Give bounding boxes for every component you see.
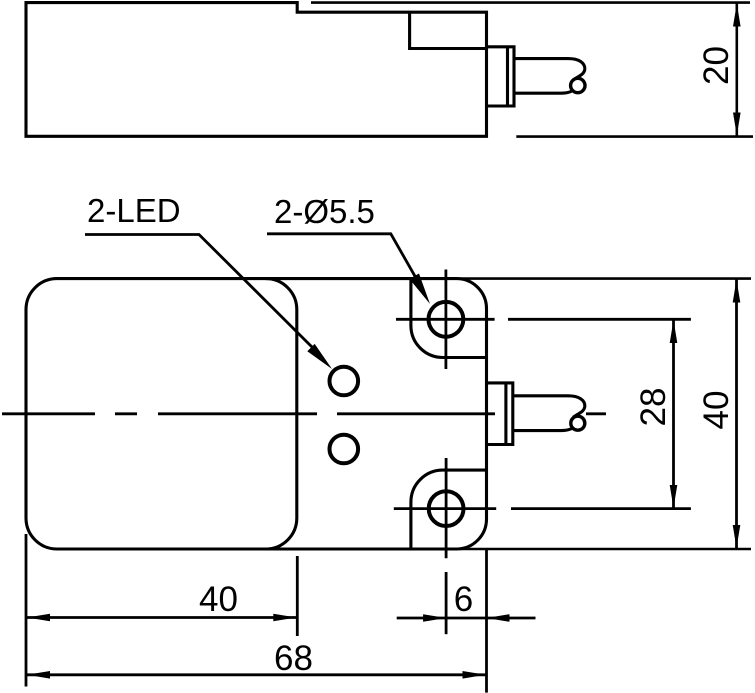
connector housing block (side view) <box>410 12 487 48</box>
dimension line 20 <box>735 4 738 136</box>
sensor outline (front view): body with rounded corners <box>26 279 487 549</box>
extension line bottom-right of front view (40 dim right) <box>735 280 738 549</box>
extension: top edge to right (40 dim) drawn with outline; bottom edge ext <box>460 277 751 280</box>
dimension line 28 <box>672 320 675 508</box>
LED window bottom <box>330 435 359 464</box>
sensor body outline (top/side view) <box>26 3 487 137</box>
svg-text:2-LED: 2-LED <box>87 192 181 229</box>
crosshair top hole <box>396 318 495 321</box>
arrowheads dim 20 <box>733 4 741 136</box>
leader line 2-dia5.5 <box>267 234 416 278</box>
arrowheads dim 28 <box>670 280 741 549</box>
svg-text:2-Ø5.5: 2-Ø5.5 <box>274 193 375 230</box>
dimension line 68 <box>27 673 486 676</box>
mounting hole top (2-dia5.5) <box>429 302 464 337</box>
bottom mounting ear outline <box>411 470 487 549</box>
cable with break symbol (side view) <box>514 59 585 81</box>
leader arrowhead 2-LED <box>307 344 332 369</box>
dimension line 40 (bottom) <box>27 616 296 619</box>
extension line head right (40 dim) <box>296 556 299 636</box>
leader arrowhead 2-dia5.5 <box>409 274 430 305</box>
leader line 2-LED <box>85 235 315 351</box>
dimension line 6 <box>397 617 536 620</box>
extension line left (40/68 dims) <box>25 534 28 687</box>
centerline horizontal main axis <box>2 412 606 415</box>
connector flange ring line (front view) <box>504 383 507 445</box>
cable with break symbol (front view) <box>513 396 585 418</box>
connector flange (front view) <box>487 383 513 445</box>
LED window top <box>330 367 359 396</box>
extension line top (side view, 20 dim) <box>311 1 750 4</box>
mounting hole bottom (2-dia5.5) <box>429 491 464 526</box>
arrowheads dim 40 bottom <box>27 614 510 679</box>
connector flange ring line (side view) <box>506 47 509 106</box>
svg-text:40: 40 <box>199 580 238 619</box>
connector flange (side view) <box>487 47 515 106</box>
extension line body right (6/68 dims) <box>485 549 488 693</box>
svg-text:6: 6 <box>454 580 473 619</box>
svg-text:40: 40 <box>697 391 736 430</box>
svg-text:20: 20 <box>697 46 736 85</box>
svg-text:68: 68 <box>274 639 313 678</box>
crosshair bottom hole <box>394 507 496 510</box>
sensing head right edge (front view) <box>266 279 297 549</box>
top mounting ear outline <box>411 279 487 358</box>
extension line bottom (side view, 20 dim) <box>516 135 753 138</box>
extension lines dim 28 <box>508 318 691 321</box>
extension line hole centerline (6 dim) <box>445 572 448 634</box>
svg-text:28: 28 <box>634 388 673 427</box>
